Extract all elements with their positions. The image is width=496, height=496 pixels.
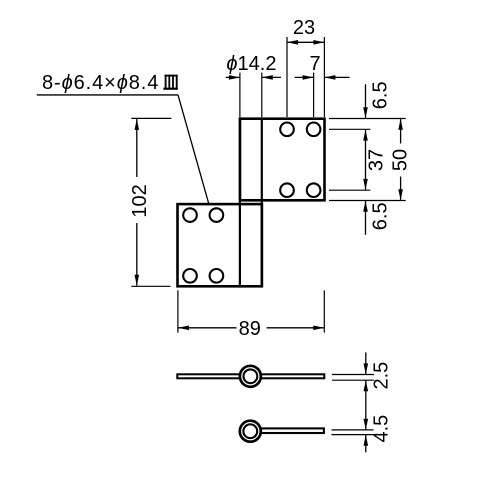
svg-text:50: 50 <box>390 149 412 171</box>
top leaf hole upper-right <box>307 123 321 137</box>
extension line lower hole center <box>329 189 370 191</box>
svg-text:6.5: 6.5 <box>370 81 392 109</box>
top leaf hole lower-right <box>307 183 321 197</box>
flat hinge bar (upper side view) <box>177 374 324 378</box>
countersink symbol (sara) <box>163 75 178 89</box>
knuckle pin circle <box>244 369 258 383</box>
svg-text:8-ϕ6.4×ϕ8.4: 8-ϕ6.4×ϕ8.4 <box>42 72 159 94</box>
extension line upper hole center <box>329 128 370 130</box>
eye outer circle <box>240 421 261 442</box>
top leaf hole upper-left <box>280 123 294 137</box>
dimension 37 <box>365 130 367 190</box>
dimension 89 <box>178 290 324 332</box>
knuckle outer circle <box>240 366 261 387</box>
knuckle right edge line (top leaf divider / bottom leaf right edge) <box>261 117 263 287</box>
bottom leaf hole lower-left <box>183 269 197 283</box>
dimension 2.5 <box>365 352 367 374</box>
eye pin circle <box>243 424 257 438</box>
knuckle left edge line (top leaf left edge / bottom leaf divider) <box>239 117 241 287</box>
single leaf bar (lower side view) <box>252 428 324 433</box>
top leaf hole lower-left <box>280 183 294 197</box>
leader line to countersunk holes <box>178 95 209 204</box>
svg-text:37: 37 <box>366 149 388 171</box>
dimension 6.5 top <box>365 84 367 118</box>
dimension 23 <box>287 37 324 117</box>
bottom leaf hole upper-left <box>183 208 197 222</box>
extension lines thickness 2.5 <box>332 374 374 376</box>
svg-text:ϕ14.2: ϕ14.2 <box>226 53 276 75</box>
svg-text:23: 23 <box>293 17 315 39</box>
dimension 102 <box>131 118 171 286</box>
svg-text:4.5: 4.5 <box>371 415 393 443</box>
label underline <box>37 94 178 96</box>
dimension 4.5 <box>364 419 369 430</box>
dimension 6.5 bottom <box>365 201 367 235</box>
extension line top edge right <box>329 118 406 120</box>
bottom leaf hole lower-right <box>210 269 224 283</box>
svg-text:102: 102 <box>129 184 151 217</box>
dimension 50 <box>400 119 402 143</box>
svg-text:2.5: 2.5 <box>371 362 393 390</box>
svg-text:6.5: 6.5 <box>370 202 392 230</box>
svg-text:7: 7 <box>309 53 320 75</box>
bottom leaf hole upper-right <box>210 208 224 222</box>
top leaf plate <box>240 119 325 201</box>
extension line bottom edge right <box>329 200 406 202</box>
svg-text:89: 89 <box>239 318 261 340</box>
bottom leaf plate <box>178 204 262 286</box>
extension lines thickness 4.5 <box>332 429 374 431</box>
